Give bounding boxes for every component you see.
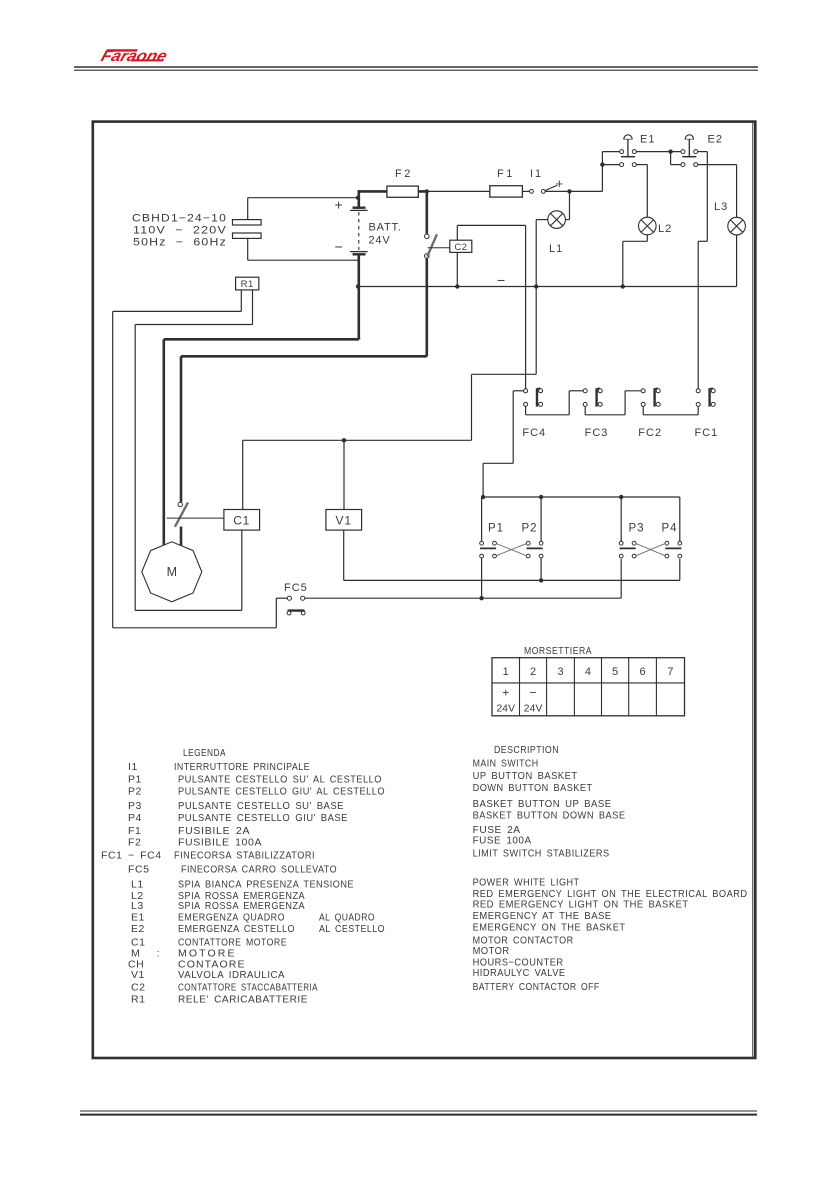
svg-text:I1: I1 [530,168,543,180]
contact C2 (battery disconnect) [425,234,437,258]
svg-text:+: + [335,197,343,213]
coil C2 [450,240,472,252]
wire P2 feed [540,497,542,541]
wire P1 output stub [481,558,483,598]
label MORSETTIERA [524,646,592,657]
wire to lamp L1 [565,191,569,219]
svg-text:C2: C2 [131,982,146,994]
wire + rail to F1 [427,190,490,192]
svg-text:7: 7 [667,666,673,678]
coil V1 [326,510,362,531]
wire P1 feed [481,497,483,541]
limit switch FC5 [287,596,305,615]
relay R1 [236,277,259,290]
svg-text:MOTOR: MOTOR [473,945,510,957]
wire FC5 to P1 P3 [305,559,621,598]
svg-text:FC1 − FC4: FC1 − FC4 [101,850,162,862]
svg-text:RED EMERGENCY LIGHT ON THE BAS: RED EMERGENCY LIGHT ON THE BASKET [473,899,689,911]
svg-text:P3: P3 [128,800,142,812]
junction E1 feed [600,162,604,166]
svg-text:+: + [502,686,509,700]
lamp L2 [639,217,657,235]
label P2 [522,523,538,535]
wire E1 to lamp L2 [636,165,647,218]
svg-text:BATT.: BATT. [369,222,402,234]
svg-text:PULSANTE CESTELLO SU' AL CESTE: PULSANTE CESTELLO SU' AL CESTELLO [178,774,382,786]
linkage C2 contact to coil [428,247,450,249]
wire feed up to E1 [602,152,619,192]
svg-text:1: 1 [503,666,509,678]
svg-text:L1: L1 [131,879,144,891]
legend right column [473,744,748,993]
svg-text:LIMIT SWITCH STABILIZERS: LIMIT SWITCH STABILIZERS [473,848,610,860]
label L3 [714,201,728,213]
svg-text:F1: F1 [497,168,515,180]
legend left column [101,747,385,1006]
svg-text:P3: P3 [629,523,645,535]
svg-text:E2: E2 [708,134,723,146]
junction L1 tap [567,189,571,193]
interlock P3-P4 [636,544,665,556]
minus bus wire [358,286,737,288]
lamp L1 [548,211,566,229]
label P4 [662,523,678,535]
svg-text:POWER WHITE LIGHT: POWER WHITE LIGHT [473,877,580,889]
linkage contact to C1 coil [167,517,224,519]
wire FC3 to FC2 chain [585,391,641,415]
svg-text:+: + [556,176,564,191]
svg-text:I1: I1 [128,761,138,773]
label FC4 [522,427,546,439]
wire FC4 to FC3 chain [526,391,584,415]
svg-text:P2: P2 [128,786,142,798]
svg-text:E1: E1 [131,912,145,924]
wire C2 bottom to minus bus [456,252,458,286]
svg-text:BASKET BUTTON UP BASE: BASKET BUTTON UP BASE [473,798,612,810]
svg-text:P4: P4 [128,812,142,824]
wire C1 top to minus node [243,440,344,509]
terminal block MORSETTIERA [492,658,685,716]
wire L1 to minus bus [536,220,548,287]
svg-text:PULSANTE CESTELLO GIU' BASE: PULSANTE CESTELLO GIU' BASE [178,812,348,824]
label V1 [336,514,352,528]
wire + rail through F2 (thick) [358,190,427,193]
svg-text:F2: F2 [395,168,413,180]
limit switch FC3 [583,388,602,407]
svg-text:LEGENDA: LEGENDA [183,747,226,759]
motor M (octagon) [142,542,202,602]
svg-text:P1: P1 [488,523,504,535]
wire V1 top stub [343,440,345,509]
contactor contact C1 at motor [175,502,188,527]
wire L2 to minus bus [623,235,648,287]
svg-text:DESCRIPTION: DESCRIPTION [494,744,559,756]
svg-text:MORSETTIERA: MORSETTIERA [524,646,592,657]
label P1 [488,523,504,535]
svg-text:EMERGENCY AT THE BASE: EMERGENCY AT THE BASE [473,910,612,922]
svg-text:AL QUADRO: AL QUADRO [319,912,375,924]
junction P bus P2 [539,495,543,499]
label E2 [708,134,723,146]
junction C2 minus bus [455,284,459,288]
wire R1 right to C1 coil [135,290,252,611]
label BATT. 24V [369,222,402,247]
wire F1 to I1 [522,190,529,192]
label FC5 [284,582,308,594]
label I1 [530,168,543,180]
svg-text:24V: 24V [369,235,391,247]
label - bus [497,272,505,288]
svg-text:P2: P2 [522,523,538,535]
svg-text:FC3: FC3 [585,427,609,439]
wire E2 output down to FC1 [698,152,708,389]
wire battery + stem (thick) [357,190,360,206]
label C2 [454,242,467,253]
bottom double rule [80,1111,757,1115]
junction P1 output [479,596,483,600]
svg-text:HIDRAULYC VALVE: HIDRAULYC VALVE [473,967,566,979]
svg-text:5: 5 [612,666,618,678]
svg-text:F2: F2 [128,837,141,849]
svg-text:UP BUTTON BASKET: UP BUTTON BASKET [473,770,578,782]
push button P3 [619,541,636,558]
label battery - [335,239,343,255]
push button P1 [480,541,497,558]
svg-text:FC2: FC2 [638,427,662,439]
label + at I1 [556,176,564,191]
junction battery - / minus bus [356,284,360,288]
svg-text:L1: L1 [549,243,563,255]
svg-text:BASKET BUTTON DOWN BASE: BASKET BUTTON DOWN BASE [473,810,626,822]
svg-text:3: 3 [557,666,563,678]
charger label CBHD1-24-10 [132,213,227,249]
svg-text:2: 2 [530,666,536,678]
svg-text:24V: 24V [524,703,543,715]
junction V1 top tap [342,438,346,442]
wire contact to motor (thick) [180,527,183,547]
svg-text:SPIA BIANCA PRESENZA TENSIONE: SPIA BIANCA PRESENZA TENSIONE [178,879,354,891]
svg-text:V1: V1 [131,969,145,981]
junction + rail corner [425,189,429,193]
wire E1 to E2 [636,151,681,153]
svg-text:L3: L3 [131,900,144,912]
svg-text:E1: E1 [640,134,655,146]
svg-text:FC5: FC5 [128,864,150,876]
junction P bus left [481,495,485,499]
svg-text:FUSIBILE 100A: FUSIBILE 100A [178,837,262,849]
svg-text:EMERGENCY ON THE BASKET: EMERGENCY ON THE BASKET [473,922,626,934]
wire I1 to E1 feed [545,190,602,192]
svg-text:RELE' CARICABATTERIE: RELE' CARICABATTERIE [178,994,308,1006]
svg-text:4: 4 [585,666,591,678]
wire P3 feed [620,497,622,541]
svg-text:DOWN BUTTON BASKET: DOWN BUTTON BASKET [473,782,593,794]
svg-text:PULSANTE CESTELLO GIU' AL CEST: PULSANTE CESTELLO GIU' AL CESTELLO [178,786,385,798]
junction P2 output [539,578,543,582]
svg-text:−: − [529,686,536,700]
svg-text:SPIA ROSSA EMERGENZA: SPIA ROSSA EMERGENZA [178,900,305,912]
wire motor feed right (thick) [181,355,427,502]
svg-text:V1: V1 [336,514,352,528]
svg-text:FUSIBILE 2A: FUSIBILE 2A [178,825,250,837]
label L1 [549,243,563,255]
push button E1 [620,135,637,167]
battery charger CBHD plates [233,220,262,239]
junction E1-E2 link [668,149,672,153]
svg-text:L3: L3 [714,201,728,213]
wire charger bottom to battery - [248,238,358,260]
svg-text:P1: P1 [128,774,142,786]
svg-text:P4: P4 [662,523,678,535]
svg-text:EMERGENZA QUADRO: EMERGENZA QUADRO [178,912,285,924]
svg-text:C2: C2 [454,242,467,253]
wire E2 to lamp L3 [698,165,737,218]
limit switch FC1 [696,388,715,407]
drawing frame border [93,122,756,1058]
wire thick below C2 contact [425,258,428,356]
top double rule [74,67,758,70]
svg-text:F1: F1 [128,825,141,837]
svg-text:PULSANTE CESTELLO SU' BASE: PULSANTE CESTELLO SU' BASE [178,800,344,812]
wire FC2 to FC1 chain [643,406,698,414]
label P3 [629,523,645,535]
switch I1 [530,185,558,193]
label E1 [640,134,655,146]
label F1 [497,168,515,180]
svg-text:FUSE 100A: FUSE 100A [473,835,532,847]
wire thick down to C2 contact [425,191,428,234]
label R1 [241,279,254,290]
wire battery - stem (thick) [357,256,360,340]
svg-text:−: − [497,272,505,288]
wire R1 left to FC5 loop [113,290,288,628]
junction P bus P3 [619,495,623,499]
svg-text:FC4: FC4 [522,427,546,439]
label F2 [395,168,413,180]
svg-text:FINECORSA CARRO SOLLEVATO: FINECORSA CARRO SOLLEVATO [181,864,337,876]
svg-text:E2: E2 [131,923,145,935]
push button P4 [665,541,682,558]
interlock P1-P2 [496,544,526,556]
svg-text:CBHD1−24−10: CBHD1−24−10 [132,213,227,225]
svg-text:R1: R1 [131,994,146,1006]
fuse F1 [490,186,523,197]
wire link down to E2 lower contact [671,152,681,165]
svg-text:CONTATTORE STACCABATTERIA: CONTATTORE STACCABATTERIA [178,982,318,994]
label FC3 [585,427,609,439]
svg-text:M: M [167,565,177,579]
coil C1 [224,510,260,531]
label battery + [335,197,343,213]
svg-text:MAIN SWITCH: MAIN SWITCH [473,758,539,770]
P button supply bus [483,497,680,541]
svg-text:EMERGENZA CESTELLO: EMERGENZA CESTELLO [178,923,295,935]
svg-text:BATTERY CONTACTOR OFF: BATTERY CONTACTOR OFF [473,981,600,993]
svg-text:FC5: FC5 [284,582,308,594]
svg-text:AL CESTELLO: AL CESTELLO [319,923,385,935]
push button P2 [526,541,543,558]
svg-text:R1: R1 [241,279,254,290]
svg-text:VALVOLA IDRAULICA: VALVOLA IDRAULICA [178,969,285,981]
svg-text:50Hz − 60Hz: 50Hz − 60Hz [133,237,227,249]
fuse F2 [387,186,418,197]
wire C2 top to FC4 [457,225,525,388]
svg-text:C1: C1 [233,514,250,528]
wire V1 bottom to P2 P4 [344,530,680,580]
label FC2 [638,427,662,439]
battery BATT. 24V [350,208,368,255]
label L2 [658,223,672,235]
junction L2 minus bus [621,284,625,288]
svg-text:INTERRUTTORE PRINCIPALE: INTERRUTTORE PRINCIPALE [174,761,310,773]
svg-text:L2: L2 [658,223,672,235]
wire motor feed left (thick) [164,338,359,547]
wire minus node up to bus [344,287,536,441]
limit switch FC4 [524,388,543,407]
svg-text:−: − [335,239,343,255]
svg-text:6: 6 [639,666,645,678]
junction L1 minus bus [534,284,538,288]
label FC1 [695,427,719,439]
wire L3 to minus bus [736,235,738,287]
push button E2 [681,135,698,167]
logo Faraone [99,48,170,65]
svg-text:24V: 24V [496,703,515,715]
wire charger top to battery + [248,198,358,220]
svg-text:FC1: FC1 [695,427,719,439]
limit switch FC2 [641,388,660,407]
lamp L3 [728,217,746,235]
label C1 [233,514,250,528]
wire P2 output stub [540,558,542,580]
wire FC4 to P-bus [483,391,523,497]
junction battery + / charger [356,196,360,200]
svg-text:110V − 220V: 110V − 220V [133,225,227,237]
svg-text:FINECORSA STABILIZZATORI: FINECORSA STABILIZZATORI [174,850,315,862]
